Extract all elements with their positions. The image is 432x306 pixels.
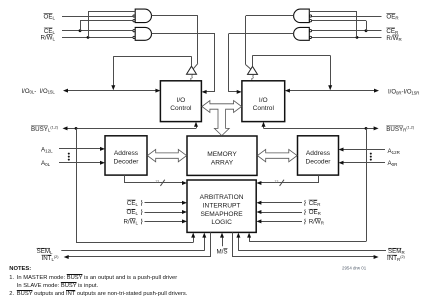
arrowhead A12L into Address Decoder L	[100, 147, 105, 151]
svg-text:0L: 0L	[45, 162, 50, 167]
junction on CER wire	[365, 29, 368, 32]
svg-text:L: L	[136, 202, 139, 207]
wire OER to arbitration	[261, 212, 302, 214]
svg-text:Control: Control	[170, 105, 192, 112]
block I/O Control right	[242, 81, 285, 122]
svg-text:OE: OE	[44, 13, 53, 20]
junction on R/WR wire	[356, 36, 359, 39]
arrowhead M/S into arbitration bottom	[220, 233, 224, 238]
tri-state output buffer right	[248, 66, 258, 74]
wire R/WL to arbitration	[145, 221, 183, 223]
arrowhead down onto I/O bus line R	[328, 85, 332, 90]
wire CER branch up to G1R	[366, 21, 368, 31]
wire CEL to arbitration	[145, 202, 183, 204]
junction on R/WL wire	[87, 36, 90, 39]
svg-text:L: L	[136, 211, 139, 216]
svg-text:INT: INT	[387, 255, 397, 262]
ellipsis dots between A12R and A0R	[370, 153, 372, 155]
svg-text:(2): (2)	[400, 255, 405, 259]
svg-text:MEMORY: MEMORY	[207, 151, 237, 158]
arrowhead A0R into Address Decoder R	[339, 161, 344, 165]
squiggle mark CER	[304, 200, 305, 205]
wire OEL to arbitration	[145, 212, 183, 214]
G1R input bubble pin OE	[309, 15, 311, 17]
arrowhead to BUSYL label	[63, 126, 68, 130]
wire INTL output	[210, 232, 212, 257]
G1L input bubble pin CE	[133, 20, 135, 22]
wide bus arrow Memory Array to Address Decoder R	[257, 149, 297, 161]
G2L input bubble pin R/W	[133, 36, 135, 38]
wire buffer L output to I/O pins	[191, 56, 193, 66]
svg-text:I/O: I/O	[177, 97, 186, 104]
svg-text:2954 drw 01: 2954 drw 01	[342, 266, 367, 271]
arrowhead to BUSYR label	[374, 126, 379, 130]
svg-text:R: R	[321, 221, 325, 226]
wire G1L output to buffer enable	[152, 15, 198, 17]
svg-text:I/O: I/O	[259, 97, 268, 104]
wire R/WR to arbitration	[261, 221, 302, 223]
arrowhead into I/O Control R left edge	[237, 90, 242, 94]
buffer L control squiggle to I/O Control top	[191, 75, 193, 81]
svg-text:L: L	[136, 221, 139, 226]
svg-text:R: R	[398, 37, 402, 42]
wire R/WL branch up to G1L top input	[88, 11, 90, 37]
G2R input bubble pin R/W	[309, 36, 311, 38]
wire OER to G1R	[312, 16, 382, 18]
svg-text:(2): (2)	[54, 255, 59, 259]
svg-text:L: L	[53, 15, 56, 20]
squiggle mark R/WR	[304, 219, 305, 224]
tri-state output buffer left	[187, 66, 197, 74]
svg-text:INTERRUPT: INTERRUPT	[203, 202, 241, 209]
arrowhead BUSYR into arbitration bottom	[247, 233, 251, 238]
arrowhead into I/O Control L right edge	[202, 90, 207, 94]
svg-text:Address: Address	[114, 150, 139, 157]
wire CEL branch up to G1L	[80, 21, 82, 31]
svg-text:13: 13	[155, 179, 159, 183]
squiggle mark OER	[304, 209, 305, 214]
arrowhead A0L into Address Decoder L	[100, 161, 105, 165]
arrowhead into I/O Control L left edge	[155, 89, 160, 93]
wire BUSYR up into I/O Control R bottom	[263, 126, 265, 128]
svg-text:15L: 15L	[48, 90, 56, 95]
arrowhead into I/O Control R right edge	[285, 89, 290, 93]
wire A0R to decoder	[343, 162, 385, 164]
arrowhead OER into arbitration right	[256, 210, 261, 214]
wire SEML to arbitration	[61, 250, 204, 252]
block Memory Array	[187, 136, 257, 175]
wire BUSYR down to arbitration logic	[366, 128, 368, 241]
svg-text:BUSY: BUSY	[386, 126, 403, 133]
svg-text:ARRAY: ARRAY	[211, 159, 234, 166]
squiggle mark R/WL	[141, 219, 142, 224]
svg-text:Decoder: Decoder	[114, 159, 140, 166]
svg-text:L: L	[53, 37, 56, 42]
wire CER to G2R	[312, 30, 382, 32]
wire CER to arbitration	[261, 202, 302, 204]
wire address bus Decoder L to arbitration	[124, 175, 126, 183]
block Arbitration Interrupt Semaphore Logic	[187, 180, 256, 232]
squiggle mark CEL	[141, 200, 142, 205]
svg-text:15R: 15R	[412, 90, 420, 95]
svg-text:OE: OE	[386, 13, 395, 20]
svg-text:Control: Control	[253, 105, 275, 112]
junction on BUSYL wire	[75, 127, 78, 130]
wire G2R output to I/O Control right	[229, 33, 294, 35]
G2R input bubble pin CE	[309, 30, 311, 32]
svg-text:OE: OE	[309, 209, 318, 216]
wire SEMR to arbitration	[238, 250, 386, 252]
block Address Decoder left	[105, 136, 147, 175]
wire OEL to G1L	[62, 16, 133, 18]
wire M/S up into arbitration	[222, 237, 224, 246]
bus width slash 13 left	[160, 180, 164, 186]
notes text block	[9, 267, 31, 273]
wire G2L output to I/O Control left	[152, 33, 216, 35]
svg-text:12R: 12R	[392, 150, 401, 155]
AND gate G1L (left read enable gate)	[135, 9, 151, 23]
arrowhead R/WL into arbitration left	[182, 219, 187, 223]
svg-text:Decoder: Decoder	[306, 159, 332, 166]
arrowhead SEMR into arbitration bottom	[236, 233, 240, 238]
svg-text:R: R	[318, 211, 322, 216]
svg-text:(1,2): (1,2)	[406, 126, 414, 130]
wire INTR output	[232, 232, 234, 257]
arrowhead BUSYL into arbitration bottom	[191, 233, 195, 238]
G2L input bubble pin CE	[133, 30, 135, 32]
svg-text:SEMAPHORE: SEMAPHORE	[201, 211, 244, 218]
arrowhead R/WR into arbitration right	[256, 219, 261, 223]
arrowhead A12R into Address Decoder R	[339, 148, 344, 152]
wire A12L to decoder	[59, 148, 101, 150]
svg-text:OE: OE	[127, 209, 136, 216]
arrowhead to INTL label	[64, 255, 69, 259]
wire BUSYL down to arbitration logic	[76, 128, 78, 242]
svg-text:Address: Address	[306, 150, 331, 157]
block I/O Control left	[160, 81, 201, 122]
block Address Decoder right	[298, 136, 339, 175]
T-shaped data bus arrow between I/O Controls and Memory Array	[202, 101, 242, 136]
wire A0L to decoder	[59, 162, 101, 164]
svg-text:R: R	[317, 202, 321, 207]
arrowhead into I/O Control R bottom	[262, 122, 266, 127]
arrowhead to INTR label	[374, 255, 379, 259]
svg-text:INT: INT	[41, 255, 51, 262]
G1R input bubble pin CE	[309, 20, 311, 22]
junction on BUSYR wire	[365, 127, 368, 130]
svg-text:CE: CE	[386, 28, 395, 35]
wire CEL to G2L	[62, 30, 133, 32]
buffer R control squiggle to I/O Control top	[252, 75, 254, 81]
svg-text:LOGIC: LOGIC	[211, 219, 232, 226]
svg-text:-: -	[34, 89, 36, 95]
svg-text:(1,2): (1,2)	[50, 126, 58, 130]
arrowhead CER into arbitration right	[256, 201, 261, 205]
svg-text:ARBITRATION: ARBITRATION	[200, 194, 244, 201]
svg-text:CE: CE	[127, 200, 136, 207]
I/O bus line left	[68, 90, 156, 92]
svg-text:12L: 12L	[45, 148, 53, 153]
wire BUSYL up into I/O Control L bottom	[196, 126, 198, 128]
svg-text:L: L	[53, 30, 56, 35]
wire R/WR to G2R	[312, 37, 382, 39]
junction on CEL wire	[79, 29, 82, 32]
wide bus arrow Address Decoder L to Memory Array	[147, 149, 186, 161]
wire G1R output to buffer enable	[246, 15, 294, 17]
I/O bus line right	[289, 90, 374, 92]
arrowhead down onto I/O bus line L	[111, 85, 115, 90]
svg-text:CE: CE	[309, 200, 318, 207]
wire BUSYR line	[264, 128, 374, 130]
bus width slash 13 right	[280, 180, 284, 186]
AND gate G2L (left write enable gate)	[135, 27, 151, 40]
svg-text:0R: 0R	[392, 162, 398, 167]
wire buffer R output to I/O pins	[252, 55, 254, 66]
arrowhead bus into arbitration right	[256, 181, 261, 185]
wire BUSYL line	[65, 128, 196, 130]
arrowhead CEL into arbitration left	[182, 201, 187, 205]
svg-text:13: 13	[274, 179, 278, 183]
svg-text:R: R	[395, 15, 399, 20]
G1L input bubble pin OE	[133, 15, 135, 17]
arrowhead to I/O pins label L	[63, 89, 68, 93]
arrowhead bus into arbitration left	[182, 181, 187, 185]
arrowhead SEML into arbitration bottom	[202, 233, 206, 238]
arrowhead OEL into arbitration left	[182, 210, 187, 214]
wire address bus Decoder R to arbitration	[318, 175, 320, 183]
wire R/WL to G2L	[62, 37, 133, 39]
squiggle mark OEL	[141, 209, 142, 214]
wire R/WR branch up to G1R top input	[356, 11, 358, 37]
arrowhead into I/O Control L bottom	[194, 122, 198, 127]
arrowhead to I/O pins label R	[374, 89, 379, 93]
AND gate G2R (right write enable gate)	[294, 27, 310, 40]
wire A12R to decoder	[343, 149, 385, 151]
svg-text:S: S	[223, 248, 227, 255]
svg-text:BUSY: BUSY	[31, 126, 48, 133]
AND gate G1R (right read enable gate)	[294, 9, 310, 23]
ellipsis dots between A12L and A0L	[68, 153, 70, 155]
